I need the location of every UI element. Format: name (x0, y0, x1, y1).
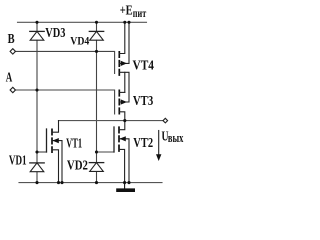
VT1 source lead to ground rail (52, 150, 59, 183)
junction VT2 gate tap on B column (95, 150, 98, 153)
diode VD2 (89, 163, 103, 172)
output arrow Uvyh (156, 131, 161, 162)
junction VT4 substrate to +E rail (127, 21, 130, 24)
svg-text:VD2: VD2 (67, 158, 88, 173)
wire input A to VT3 gate (15, 90, 115, 114)
junction VT1 substrate to ground rail (60, 181, 63, 184)
svg-text:VD3: VD3 (45, 25, 65, 40)
junction VT4 source to +E rail (123, 21, 126, 24)
wire input B to VT4 gate (15, 51, 115, 73)
VT4 source lead to +E rail (119, 22, 125, 53)
junction VD2 anode to ground rail (95, 181, 98, 184)
transistor Q VT1 (n-MOS) (47, 121, 63, 183)
diode VD4 (89, 31, 103, 40)
svg-text:VT1: VT1 (66, 136, 82, 151)
output wire (59, 120, 164, 122)
svg-text:B: B (8, 31, 15, 46)
junction VD1 anode to ground rail (35, 181, 38, 184)
VT2 gate electrode (113, 127, 115, 152)
VT1 gate electrode (46, 129, 48, 152)
svg-text:пит: пит (133, 8, 147, 20)
svg-text:VT3: VT3 (133, 93, 154, 108)
ground symbol (118, 183, 133, 191)
VT2 drain lead to output node (119, 121, 125, 130)
svg-text:VT4: VT4 (133, 57, 155, 72)
VT3 source stub (119, 91, 125, 93)
VT2 channel dashes (118, 127, 120, 151)
VT2 source lead to ground rail (119, 149, 125, 182)
VT3 drain lead to output node (119, 112, 125, 121)
VT4 drain lead down to VT3 source (119, 72, 125, 92)
wire VT2 gate feed (97, 151, 115, 153)
VT1 drain lead to output wire (52, 121, 59, 133)
diode VD1 (30, 163, 44, 172)
svg-text:A: A (6, 69, 13, 84)
VT3 substrate lead tied to its source (119, 72, 129, 102)
svg-text:VD1: VD1 (9, 152, 27, 167)
svg-text:VD4: VD4 (70, 35, 89, 47)
svg-text:вых: вых (168, 130, 184, 145)
svg-text:+E: +E (120, 2, 133, 17)
transistor Q VT2 (n-MOS) (114, 121, 129, 183)
junction VD4 cathode to +E rail (95, 21, 98, 24)
transistor Q VT3 (p-MOS) (119, 72, 129, 120)
junction VD3 cathode to +E rail (35, 21, 38, 24)
VT1 channel dashes (51, 129, 53, 152)
input terminal B (10, 49, 15, 54)
junction VT1 source to ground rail (57, 181, 60, 184)
junction output node (VT3/VT2 drains) (123, 119, 126, 122)
junction input B to VD4/VD2 column (95, 50, 98, 53)
diode VD3 (30, 31, 44, 40)
VT2 substrate arrow (119, 136, 125, 141)
VT4 substrate arrow (121, 61, 127, 66)
junction input A to VD3/VD1 column (35, 88, 38, 91)
input terminal A (10, 87, 15, 92)
VT4 channel dashes (118, 52, 120, 75)
junction VT1 gate tap on A column (35, 150, 38, 153)
svg-text:VT2: VT2 (133, 135, 153, 150)
node B column wire (96, 22, 98, 182)
output terminal (163, 118, 168, 123)
junction VT2 substrate to ground rail (127, 181, 130, 184)
VT3 channel dashes (118, 90, 120, 113)
VT1 substrate lead to ground rail (52, 141, 62, 183)
VT2 substrate lead to ground rail (119, 139, 129, 183)
VT3 substrate arrow (121, 99, 127, 104)
VT4 substrate lead to +E rail (119, 22, 129, 63)
junction VT2 source to ground rail (123, 181, 126, 184)
VT1 substrate arrow (52, 138, 58, 143)
power rail +E (18, 21, 147, 23)
transistor Q VT4 (p-MOS) (119, 22, 129, 92)
ground rail (19, 182, 162, 184)
node A column wire (36, 22, 38, 182)
wire VT1 gate feed (37, 151, 47, 153)
